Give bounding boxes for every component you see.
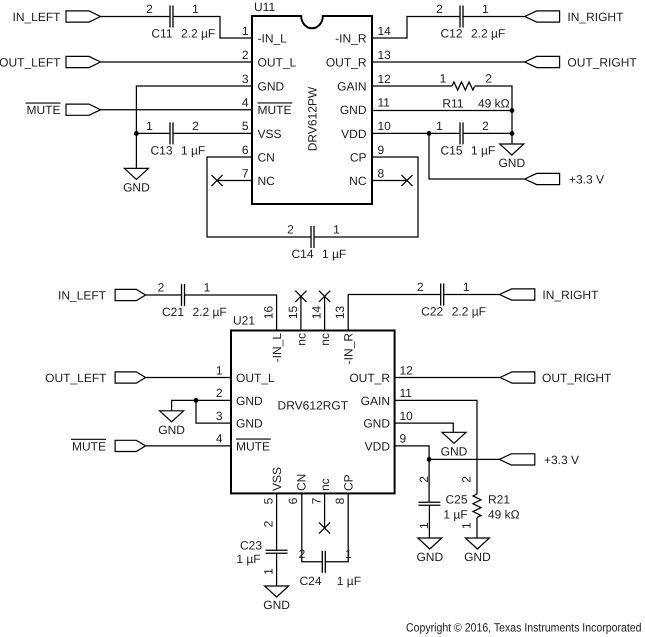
svg-text:U11: U11 (254, 0, 275, 14)
svg-text:CP: CP (350, 150, 367, 164)
svg-text:1: 1 (216, 363, 223, 377)
svg-text:IN_RIGHT: IN_RIGHT (567, 10, 624, 24)
svg-text:C23: C23 (240, 539, 262, 553)
svg-text:2: 2 (146, 2, 153, 16)
svg-text:2.2 µF: 2.2 µF (452, 305, 486, 319)
svg-text:+3.3 V: +3.3 V (544, 453, 579, 467)
svg-text:1: 1 (345, 547, 352, 561)
svg-text:-IN_L: -IN_L (258, 31, 288, 45)
svg-text:2.2 µF: 2.2 µF (193, 305, 227, 319)
svg-text:2: 2 (242, 48, 249, 62)
svg-text:GND: GND (498, 156, 525, 170)
svg-text:GND: GND (236, 394, 263, 408)
svg-text:GND: GND (416, 550, 443, 564)
svg-text:2.2 µF: 2.2 µF (181, 27, 215, 41)
svg-text:C11: C11 (151, 27, 172, 41)
svg-text:GND: GND (158, 423, 185, 437)
svg-text:10: 10 (378, 119, 392, 133)
svg-text:1: 1 (192, 2, 199, 16)
svg-text:1 µF: 1 µF (337, 574, 361, 588)
svg-text:2: 2 (216, 386, 223, 400)
svg-text:13: 13 (378, 48, 392, 62)
svg-text:GAIN: GAIN (361, 394, 390, 408)
svg-text:CN: CN (258, 150, 275, 164)
svg-text:2: 2 (482, 119, 489, 133)
svg-text:13: 13 (333, 306, 347, 320)
svg-text:1 µF: 1 µF (236, 552, 260, 566)
svg-text:1: 1 (459, 522, 473, 529)
svg-text:1: 1 (463, 280, 470, 294)
svg-text:3: 3 (242, 72, 249, 86)
svg-text:CN: CN (294, 474, 308, 491)
svg-text:2: 2 (417, 280, 424, 294)
svg-text:C15: C15 (440, 143, 462, 157)
svg-text:NC: NC (258, 174, 276, 188)
svg-text:OUT_R: OUT_R (349, 371, 390, 385)
svg-text:DRV612RGT: DRV612RGT (278, 399, 349, 413)
svg-text:nc: nc (318, 478, 332, 491)
svg-text:2: 2 (158, 280, 165, 294)
svg-text:2.2 µF: 2.2 µF (471, 27, 505, 41)
svg-text:6: 6 (286, 497, 300, 504)
svg-text:MUTE: MUTE (72, 439, 106, 453)
svg-text:1: 1 (204, 280, 211, 294)
svg-text:OUT_L: OUT_L (236, 371, 275, 385)
svg-text:R21: R21 (488, 493, 510, 507)
svg-text:GND: GND (258, 79, 285, 93)
svg-text:1 µF: 1 µF (471, 143, 495, 157)
svg-text:5: 5 (262, 497, 276, 504)
svg-text:11: 11 (400, 386, 413, 400)
svg-text:2: 2 (417, 476, 431, 483)
svg-text:1 µF: 1 µF (443, 507, 467, 521)
svg-text:12: 12 (400, 363, 414, 377)
svg-text:nc: nc (318, 333, 332, 346)
svg-text:C14: C14 (291, 247, 313, 261)
svg-text:10: 10 (400, 409, 414, 423)
svg-text:11: 11 (378, 96, 391, 110)
svg-text:2: 2 (459, 476, 473, 483)
svg-text:GND: GND (123, 180, 150, 194)
svg-text:IN_LEFT: IN_LEFT (12, 10, 61, 24)
svg-text:15: 15 (286, 306, 300, 320)
svg-text:MUTE: MUTE (27, 103, 61, 117)
svg-text:2: 2 (485, 71, 492, 85)
svg-text:6: 6 (242, 143, 249, 157)
svg-text:C22: C22 (421, 305, 443, 319)
svg-text:1: 1 (333, 222, 340, 236)
svg-text:2: 2 (262, 520, 276, 527)
svg-text:C21: C21 (162, 305, 184, 319)
svg-text:GND: GND (236, 417, 263, 431)
svg-text:3: 3 (216, 409, 223, 423)
svg-text:C12: C12 (440, 27, 462, 41)
svg-text:1: 1 (417, 522, 431, 529)
svg-text:VDD: VDD (341, 127, 367, 141)
svg-text:14: 14 (378, 24, 392, 38)
svg-text:14: 14 (310, 306, 324, 320)
svg-text:NC: NC (349, 174, 367, 188)
svg-text:49 kΩ: 49 kΩ (488, 507, 520, 521)
svg-text:U21: U21 (233, 314, 255, 328)
svg-text:1: 1 (262, 568, 276, 575)
svg-text:nc: nc (294, 333, 308, 346)
svg-text:8: 8 (333, 497, 347, 504)
svg-text:C25: C25 (446, 493, 468, 507)
svg-text:2: 2 (299, 547, 306, 561)
svg-text:1: 1 (146, 119, 153, 133)
svg-text:7: 7 (242, 166, 249, 180)
svg-text:8: 8 (378, 166, 385, 180)
svg-text:MUTE: MUTE (258, 103, 292, 117)
svg-text:1: 1 (242, 24, 249, 38)
svg-text:OUT_RIGHT: OUT_RIGHT (542, 371, 612, 385)
svg-text:7: 7 (310, 497, 324, 504)
svg-text:C24: C24 (299, 574, 321, 588)
svg-text:GND: GND (441, 444, 468, 458)
svg-text:2: 2 (436, 2, 443, 16)
svg-text:-IN_L: -IN_L (270, 333, 284, 363)
svg-text:9: 9 (378, 143, 385, 157)
svg-text:4: 4 (242, 96, 249, 110)
svg-text:12: 12 (378, 72, 392, 86)
svg-text:GND: GND (340, 103, 367, 117)
svg-text:GND: GND (263, 598, 290, 612)
svg-text:9: 9 (400, 432, 407, 446)
svg-text:GND: GND (464, 550, 491, 564)
svg-text:R11: R11 (442, 96, 463, 110)
svg-text:MUTE: MUTE (236, 439, 270, 453)
svg-text:C13: C13 (150, 143, 172, 157)
svg-text:OUT_LEFT: OUT_LEFT (45, 371, 107, 385)
svg-text:+3.3 V: +3.3 V (569, 172, 604, 186)
svg-text:16: 16 (262, 306, 276, 320)
svg-text:OUT_RIGHT: OUT_RIGHT (567, 55, 637, 69)
svg-text:1: 1 (436, 119, 443, 133)
svg-text:GAIN: GAIN (337, 79, 366, 93)
svg-text:VSS: VSS (270, 467, 284, 491)
svg-text:1 µF: 1 µF (181, 143, 205, 157)
svg-text:IN_LEFT: IN_LEFT (58, 288, 107, 302)
svg-text:IN_RIGHT: IN_RIGHT (542, 288, 599, 302)
svg-text:OUT_L: OUT_L (258, 55, 297, 69)
svg-text:OUT_R: OUT_R (326, 55, 367, 69)
svg-text:-IN_R: -IN_R (342, 333, 356, 365)
svg-text:1: 1 (440, 71, 447, 85)
svg-text:2: 2 (287, 222, 294, 236)
svg-text:GND: GND (363, 417, 390, 431)
svg-text:49 kΩ: 49 kΩ (478, 96, 510, 110)
svg-text:VSS: VSS (258, 127, 282, 141)
svg-text:CP: CP (342, 474, 356, 491)
svg-text:1: 1 (482, 2, 489, 16)
svg-text:OUT_LEFT: OUT_LEFT (0, 55, 61, 69)
svg-text:Copyright © 2016, Texas Instru: Copyright © 2016, Texas Instruments Inco… (406, 621, 642, 635)
svg-text:1 µF: 1 µF (322, 247, 346, 261)
svg-text:2: 2 (192, 119, 199, 133)
svg-text:-IN_R: -IN_R (335, 31, 367, 45)
svg-text:VDD: VDD (365, 439, 391, 453)
svg-text:5: 5 (242, 119, 249, 133)
svg-text:4: 4 (216, 432, 223, 446)
svg-text:DRV612PW: DRV612PW (305, 86, 319, 151)
